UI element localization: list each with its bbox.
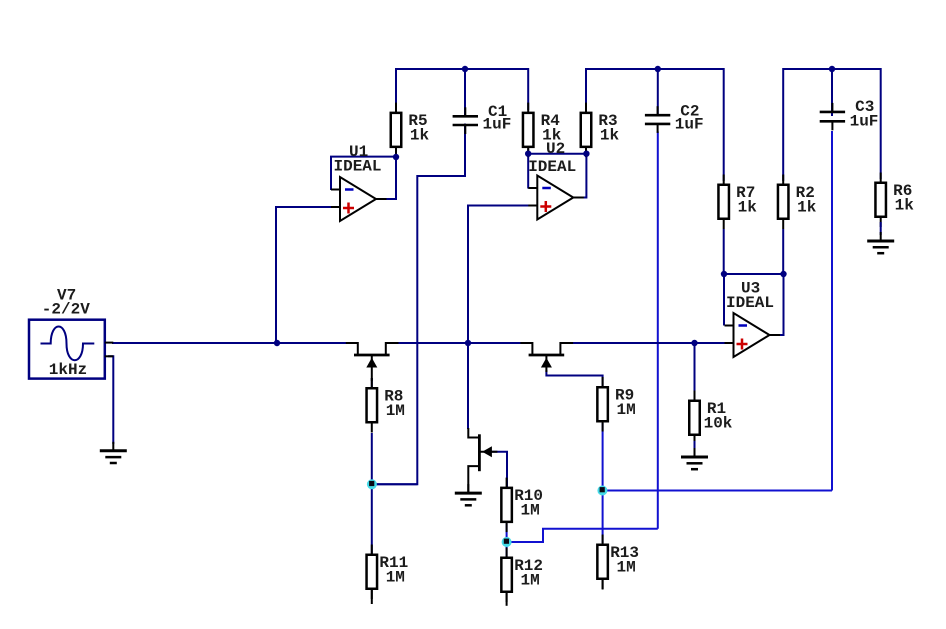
wire R13 bottom dangling lead	[602, 580, 604, 590]
svg-text:1k: 1k	[600, 126, 620, 144]
resistor R6	[875, 173, 886, 228]
svg-text:1M: 1M	[520, 501, 539, 519]
svg-text:1k: 1k	[895, 196, 915, 214]
resistor R5	[391, 103, 402, 158]
junction main line / R1 / U3 input	[691, 340, 697, 346]
svg-text:1uF: 1uF	[675, 116, 704, 134]
wire R1 to ground	[694, 441, 696, 450]
ground R1 ground	[681, 448, 708, 469]
svg-text:1M: 1M	[616, 401, 635, 419]
wire C3 bottom vertical (C3 to node)	[831, 131, 833, 491]
wire R1 top lead	[694, 343, 696, 400]
svg-text:1M: 1M	[520, 571, 539, 589]
wire top bus 1 (R5-C1-R4)	[396, 69, 528, 110]
wire top bus 3 (R2-C3-R6)	[783, 69, 881, 181]
svg-text:IDEAL: IDEAL	[334, 158, 382, 176]
svg-text:10k: 10k	[704, 414, 733, 432]
svg-text:U2: U2	[546, 140, 565, 158]
highlighted junction node R9/R13	[597, 486, 607, 496]
capacitor C3	[820, 103, 845, 130]
transistor Q2 (N-JFET)	[520, 343, 573, 372]
transistor Q1 (N-JFET)	[346, 343, 399, 381]
wire R5 bottom to U1 node	[395, 149, 397, 157]
ground V7 ground	[100, 442, 127, 463]
wire C3 top lead	[831, 69, 833, 116]
highlighted junction node R10/R12	[502, 537, 512, 547]
resistor R13	[597, 535, 608, 590]
wire R8/R11 node to C1 feedback	[372, 483, 417, 485]
junction R4 / U2 inverting	[525, 151, 531, 157]
wire Q1 gate to R8	[371, 378, 373, 388]
resistor R4	[523, 103, 534, 158]
svg-text:1M: 1M	[616, 558, 635, 576]
svg-text:IDEAL: IDEAL	[726, 294, 774, 312]
junction R5 / U1 feedback	[393, 154, 399, 160]
junction top bus 3 / C3	[829, 66, 835, 72]
wire R10 to R12 node	[506, 524, 508, 557]
wire C2 top lead	[657, 69, 659, 116]
wire R3 bottom lead	[585, 149, 587, 154]
junction R2 / U3 output	[780, 271, 786, 277]
transistor Q3 (N-JFET)	[468, 428, 497, 493]
wire main signal line Q2 to U3	[572, 342, 725, 344]
wire R12 bottom dangling lead	[506, 593, 508, 606]
svg-text:1M: 1M	[386, 568, 405, 586]
junction R3 / U2 output	[583, 151, 589, 157]
svg-text:1M: 1M	[386, 402, 405, 420]
wire Q2 gate to R9	[546, 370, 602, 387]
svg-text:1k: 1k	[410, 126, 430, 144]
resistor R10	[501, 478, 512, 532]
resistor R8	[367, 378, 378, 433]
wire R11 bottom dangling lead	[371, 590, 373, 604]
junction R7 / U3 inverting	[721, 271, 727, 277]
wire U1 feedback box	[331, 157, 396, 199]
wire top bus 2 (R3-C2-R7)	[586, 69, 724, 181]
op-amp U3	[725, 313, 781, 357]
svg-text:-2/2V: -2/2V	[42, 300, 90, 318]
resistor R12	[501, 548, 512, 603]
wire R7 bottom lead	[723, 229, 725, 274]
wire R10/R12 node jog to C2 net	[507, 529, 658, 542]
wire R9 bottom to node	[602, 423, 604, 491]
wire main signal line V7 to Q1	[112, 342, 347, 344]
wire Q3 drain to main line	[467, 343, 469, 429]
wire C1 top lead	[464, 69, 466, 116]
junction top bus 1 / C1	[462, 66, 468, 72]
capacitor C1	[453, 107, 478, 134]
wire R4 bottom lead	[527, 149, 529, 154]
wire U2 feedback box (R4 node to R3 node)	[528, 154, 586, 198]
resistor R2	[778, 175, 789, 230]
svg-text:IDEAL: IDEAL	[528, 158, 576, 176]
svg-text:1k: 1k	[797, 198, 817, 216]
wire Q3 gate to R10	[491, 452, 507, 487]
wire R6 to ground	[880, 222, 882, 235]
resistor R9	[597, 377, 608, 432]
junction top bus 2 / C2	[655, 66, 661, 72]
wire C2 bottom long vertical (C2 to R10/R12 net)	[657, 132, 659, 529]
wire node to R13	[602, 491, 604, 544]
voltage source V7	[29, 320, 113, 379]
wire C1 bottom feedback (C1 to R8/R11 node)	[372, 124, 465, 485]
wire U2 non-inverting input from main line	[468, 206, 529, 344]
wire R9/R13 node to C3 node	[602, 490, 832, 492]
junction main line / U1 input	[274, 340, 280, 346]
wire main signal line Q1 to Q2	[398, 342, 522, 344]
highlighted junction node R8/R11	[367, 479, 377, 489]
svg-text:1uF: 1uF	[850, 112, 879, 130]
wire U3 non-inverting input	[695, 342, 726, 344]
wire U3 feedback box (R7 node to R2 node)	[724, 274, 784, 335]
svg-text:1kHz: 1kHz	[49, 361, 87, 379]
op-amp U2	[528, 176, 584, 220]
ground R6 ground	[867, 232, 894, 253]
resistor R3	[581, 103, 592, 158]
ground Q3 ground	[455, 484, 482, 505]
capacitor C2	[645, 106, 670, 133]
resistor R11	[367, 545, 378, 600]
wire R2 bottom lead	[782, 229, 784, 274]
wire U1 non-inverting input from main line	[276, 207, 332, 343]
wire V7 minus to ground	[108, 356, 113, 444]
svg-text:1uF: 1uF	[482, 116, 511, 134]
resistor R1	[689, 391, 700, 446]
svg-text:1k: 1k	[738, 198, 758, 216]
op-amp U1	[331, 177, 387, 221]
junction main line / Q3 drain	[465, 340, 471, 346]
wire R8 to R11 node	[371, 433, 373, 554]
resistor R7	[718, 175, 729, 230]
